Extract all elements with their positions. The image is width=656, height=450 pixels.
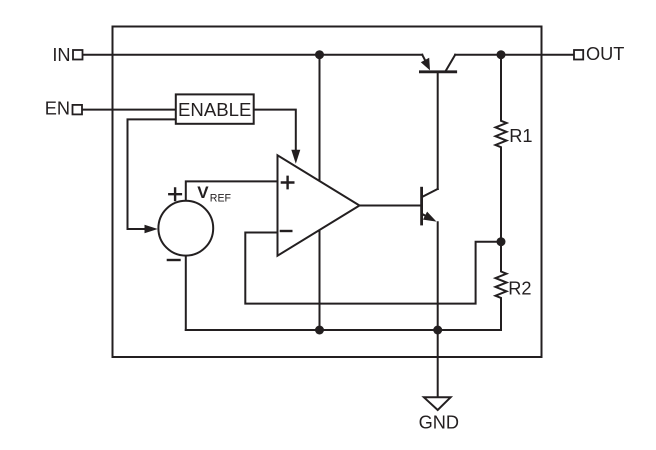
wire: feedback tap to op-amp inverting input — [245, 233, 501, 304]
resistor R1 — [496, 55, 507, 242]
svg-text:R2: R2 — [508, 278, 531, 298]
junction node: R1/R2 feedback tap — [497, 237, 506, 246]
wire: Q1 collector to OUT pad — [455, 54, 574, 56]
op-amp U1 error amplifier — [278, 155, 360, 255]
transistor Q2 driver NPN: base bar — [420, 188, 423, 224]
EN terminal pad — [73, 105, 83, 115]
IN terminal pad — [73, 50, 83, 60]
IC boundary box — [113, 27, 542, 358]
junction node: GND rail / Q2 emitter — [433, 326, 442, 335]
junction node: IN rail / op-amp supply — [315, 50, 324, 59]
wire: ENABLE block output to op-amp enable arrow — [254, 110, 296, 151]
ENABLE logic block — [176, 94, 254, 123]
wire: GND rail — [186, 329, 501, 331]
wire: EN pad to ENABLE block input — [82, 109, 176, 111]
svg-text:EN: EN — [45, 98, 70, 118]
wire: op-amp supply pass-through from IN rail node to GND rail node — [319, 55, 321, 330]
junction node: GND rail / op-amp supply return — [315, 326, 324, 335]
wire: ENABLE block to VREF source (left branch) — [128, 119, 176, 229]
svg-text:ENABLE: ENABLE — [178, 99, 251, 120]
wire: Q2 collector up to Q1 base — [437, 72, 439, 189]
svg-text:OUT: OUT — [586, 44, 624, 64]
voltage reference VREF source circle — [158, 201, 213, 256]
transistor Q2 emitter diagonal — [422, 214, 428, 217]
plus sign of VREF source — [169, 188, 181, 200]
minus sign of VREF source — [168, 259, 180, 261]
arrowhead: enable into op-amp — [291, 150, 300, 164]
minus sign op-amp inverting input — [281, 230, 291, 232]
transistor Q1 collector diagonal — [446, 55, 455, 71]
junction node: OUT rail / R1 top — [497, 50, 506, 59]
transistor Q2 collector diagonal — [422, 189, 437, 197]
OUT terminal pad — [574, 50, 583, 60]
resistor R2 — [496, 242, 507, 330]
transistor Q1 emitter diagonal — [422, 55, 426, 62]
ground symbol triangle — [424, 397, 451, 410]
svg-text:REF: REF — [210, 193, 232, 205]
wire: IN rail from IN pad to Q1 emitter — [83, 54, 423, 56]
svg-text:R1: R1 — [509, 126, 532, 146]
arrowhead: Q1 emitter (PNP) — [421, 58, 430, 71]
wire: GND rail node down to ground symbol — [437, 330, 439, 397]
wire: VREF negative terminal down to GND rail — [185, 256, 187, 330]
wire: Q2 emitter down to GND rail node — [437, 222, 439, 330]
wire: VREF positive output to op-amp + input — [186, 181, 278, 200]
svg-text:GND: GND — [419, 413, 459, 433]
arrowhead: Q2 emitter (NPN) — [423, 212, 437, 222]
arrowhead: enable branch into VREF — [145, 225, 158, 234]
transistor Q1 pass PNP: base bar — [420, 70, 455, 73]
svg-text:IN: IN — [52, 45, 70, 65]
svg-text:V: V — [197, 183, 209, 202]
wire: op-amp output to Q2 base — [360, 205, 422, 207]
plus sign op-amp noninverting input — [282, 177, 293, 188]
